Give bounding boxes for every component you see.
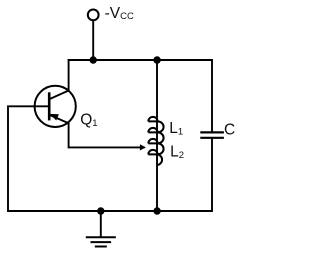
transistor Q1 body circle [35,86,76,127]
transistor Q1 emitter lead [49,115,144,148]
transistor Q1 collector lead [49,60,68,99]
svg-text:C: C [224,122,235,139]
wire bottom rail [8,210,212,212]
svg-text:Q1: Q1 [80,111,97,129]
wire left feedback vertical [7,107,9,210]
junction dot supply / top rail [90,56,97,63]
svg-text:-VCC: -VCC [105,5,134,22]
svg-text:L1: L1 [169,120,183,137]
ground bar 1 [86,236,116,238]
junction dot ground / bottom rail [97,207,104,214]
wire base lead [8,105,49,107]
transistor Q1 base bar [48,92,51,120]
inductor L1 (upper two turns) [148,117,163,143]
transistor Q1 emitter arrow (PNP, points to base) [50,114,59,121]
capacitor C top plate [200,131,224,133]
ground bar 2 [91,241,112,243]
junction dot inductor / bottom rail [153,207,160,214]
arrow head at inductor tap [140,144,146,150]
wire supply to top rail [92,21,94,59]
wire right branch lower [211,138,213,210]
inductor L2 (lower two turns) [148,139,163,165]
ground bar 3 [95,246,107,248]
capacitor C bottom plate [200,137,224,139]
supply terminal -VCC [88,10,99,21]
wire right branch upper [211,61,213,133]
ground lead [100,211,102,237]
wire top rail through inductor to bottom rail [156,59,158,211]
svg-text:L2: L2 [170,144,184,161]
junction dot inductor / top rail [153,56,160,63]
wire top rail [69,59,212,61]
